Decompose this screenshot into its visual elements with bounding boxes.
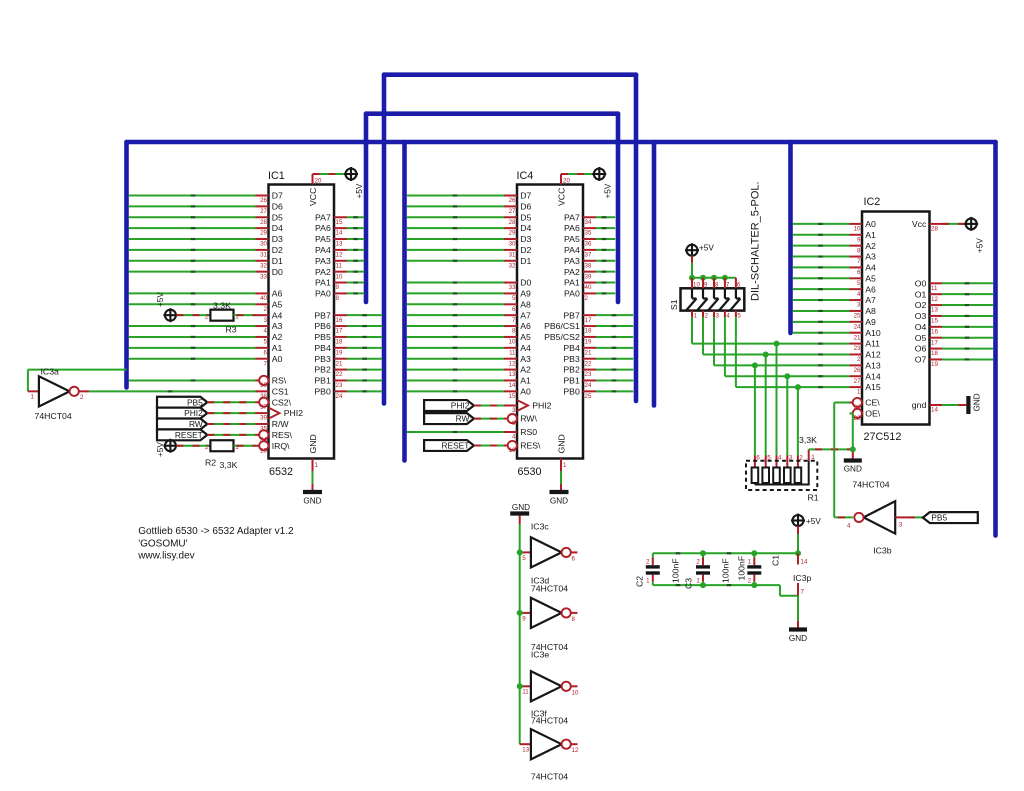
junction	[517, 549, 523, 555]
IC4 pin 39 PA2	[583, 271, 596, 273]
IC2 pin 28 Vcc	[930, 223, 943, 225]
svg-text:R3: R3	[226, 325, 237, 335]
IC4 pin 27 D6	[504, 205, 517, 207]
wire IC4 PB3 to bus	[596, 358, 633, 360]
junction	[700, 582, 706, 588]
svg-text:PB5: PB5	[931, 513, 947, 523]
svg-text:PA4: PA4	[564, 245, 580, 255]
ground below IC4	[550, 490, 569, 494]
svg-text:12: 12	[572, 747, 579, 754]
svg-text:15: 15	[509, 393, 516, 400]
IC2 pin 7 A3	[850, 256, 863, 258]
wire GND down the inverter chain	[519, 516, 521, 525]
wire IC4 PA0 to bus	[596, 292, 615, 294]
svg-text:2: 2	[585, 295, 589, 302]
wire: bus A top horizontal	[384, 72, 636, 77]
svg-text:PB2: PB2	[314, 365, 331, 375]
svg-text:C1: C1	[771, 555, 781, 566]
svg-text:30: 30	[260, 241, 267, 248]
wire bus to IC4 D6	[407, 205, 504, 207]
wire IC1 PA7 to bus	[347, 216, 364, 218]
svg-text:6: 6	[756, 455, 760, 462]
wire +5V to R2	[176, 445, 210, 447]
svg-text:28: 28	[260, 219, 267, 226]
svg-text:A4: A4	[272, 310, 283, 320]
wire bus to IC2 A0	[793, 223, 850, 225]
svg-text:O1: O1	[915, 289, 927, 299]
IC2 pin 22 OE\	[850, 412, 854, 414]
wire bus to IC2 A7	[793, 299, 850, 301]
wire bus to IC2 A9	[793, 321, 850, 323]
wire: bus C vertical at IC1 left	[124, 142, 129, 388]
svg-text:PA5: PA5	[564, 234, 580, 244]
IC4 pin 31 D2	[504, 249, 517, 251]
IC1 pin 12 PA4	[334, 249, 347, 251]
wire bus to IC2 A5	[793, 277, 850, 279]
node PB5 tag at IC1	[157, 397, 207, 408]
wire bus to IC4 A1	[407, 379, 504, 381]
svg-text:+5V: +5V	[355, 183, 364, 198]
svg-text:8: 8	[857, 247, 861, 254]
node PHI2 tag at IC4	[424, 400, 474, 411]
svg-text:7: 7	[264, 360, 268, 367]
svg-text:17: 17	[336, 328, 343, 335]
IC2 pin 3 A7	[850, 299, 863, 301]
IC2 pin 15 O3	[930, 315, 943, 317]
IC1 pin 20 VCC to +5V	[312, 174, 314, 185]
svg-text:PA0: PA0	[315, 289, 331, 299]
wire bus to IC1 A0	[129, 358, 256, 360]
wire IC1 PA6 to bus	[347, 227, 364, 229]
svg-text:+5V: +5V	[806, 517, 821, 526]
IC1 pin 10 PA2	[334, 271, 347, 273]
IC4 pin 33 D0	[504, 282, 517, 284]
svg-text:24: 24	[854, 323, 861, 330]
IC2 pin 9 A1	[850, 234, 863, 236]
wire IC2 O4 to bus	[942, 326, 993, 328]
wire bus to IC2 A2	[793, 245, 850, 247]
svg-text:10: 10	[854, 226, 861, 233]
svg-text:PA1: PA1	[564, 278, 580, 288]
svg-text:26: 26	[260, 197, 267, 204]
wire IC1 PA0 to bus	[347, 292, 364, 294]
IC1 pin 30 D3	[256, 238, 269, 240]
svg-text:29: 29	[509, 230, 516, 237]
wire bus to IC2 A1	[793, 234, 850, 236]
IC2 pin 26 A13	[850, 364, 863, 366]
svg-text:35: 35	[585, 230, 592, 237]
svg-text:D2: D2	[520, 245, 531, 255]
wire bus to IC4 A7	[407, 314, 504, 316]
wire IC1 PB6 to bus	[347, 325, 382, 327]
svg-text:1: 1	[563, 462, 567, 469]
svg-text:8: 8	[572, 616, 576, 623]
resistor R3 3,3K	[210, 310, 233, 321]
svg-text:+5V: +5V	[156, 292, 165, 307]
svg-text:6: 6	[857, 269, 861, 276]
svg-text:25: 25	[585, 393, 592, 400]
IC IC4 6530	[517, 185, 583, 459]
IC1 pin 1 GND	[312, 459, 314, 472]
svg-text:14: 14	[931, 407, 938, 414]
svg-text:A3: A3	[272, 321, 283, 331]
wire bus to IC4 A8	[407, 303, 504, 305]
wire IC1 PA1 to bus	[347, 282, 364, 284]
IC4 pin 5 A9	[504, 292, 517, 294]
svg-text:PHI2: PHI2	[184, 408, 203, 418]
IC4 pin 11 A4	[504, 347, 517, 349]
svg-text:39: 39	[260, 415, 267, 422]
wire IC2 O3 to bus	[942, 315, 993, 317]
svg-text:3: 3	[512, 407, 516, 414]
svg-text:12: 12	[509, 360, 516, 367]
svg-text:O7: O7	[915, 355, 927, 365]
svg-text:13: 13	[336, 241, 343, 248]
junction	[774, 341, 780, 347]
wire bus to IC4 D0	[407, 282, 504, 284]
IC2 pin 1 A15	[850, 386, 863, 388]
node RESET tag at IC4	[424, 440, 474, 451]
IC1 pin 37 CS2\	[256, 401, 269, 403]
svg-text:15: 15	[336, 219, 343, 226]
wire IC2 O2 to bus	[942, 304, 993, 306]
junction	[722, 275, 728, 281]
svg-text:33: 33	[260, 273, 267, 280]
IC1 pin 26 D7	[256, 195, 269, 197]
svg-text:14: 14	[801, 559, 808, 566]
svg-text:PA7: PA7	[315, 212, 331, 222]
S1 pole 4	[724, 278, 726, 289]
IC1 pin 8 PA0	[334, 292, 347, 294]
svg-text:A1: A1	[520, 376, 531, 386]
svg-text:26: 26	[854, 367, 861, 374]
svg-text:D7: D7	[272, 191, 283, 201]
wire IC2 O0 to bus	[942, 282, 993, 284]
wire IC1 PB4 to bus	[347, 347, 382, 349]
svg-text:14: 14	[509, 382, 516, 389]
wire R2 to IC1 IRQ	[234, 445, 256, 447]
svg-text:5: 5	[522, 555, 526, 562]
svg-text:IRQ\: IRQ\	[272, 441, 290, 451]
svg-text:PA1: PA1	[315, 278, 331, 288]
svg-text:+5V: +5V	[699, 243, 714, 252]
svg-text:4: 4	[847, 523, 851, 530]
svg-text:37: 37	[260, 404, 267, 411]
IC1 pin 32 D1	[256, 260, 269, 262]
node RW tag at IC4	[424, 413, 474, 424]
IC1 pin 33 D0	[256, 271, 269, 273]
svg-text:23: 23	[336, 382, 343, 389]
IC2 pin 24 A9	[850, 321, 863, 323]
power +5V at IC3p	[791, 514, 805, 528]
svg-text:D1: D1	[272, 256, 283, 266]
svg-text:3,3K: 3,3K	[799, 435, 817, 445]
svg-text:9: 9	[336, 284, 340, 291]
IC1 pin 17 PB6	[334, 325, 347, 327]
svg-text:3: 3	[857, 302, 861, 309]
svg-text:A4: A4	[865, 263, 876, 273]
IC4 pin 19 PB5/CS2	[583, 336, 596, 338]
svg-text:GND: GND	[308, 434, 318, 453]
svg-text:A5: A5	[865, 273, 876, 283]
svg-text:3: 3	[789, 455, 793, 462]
wire IC4 PB7 to bus	[596, 314, 633, 316]
IC4 pin 15 A0	[504, 390, 517, 392]
wire junction down to R1	[765, 354, 767, 455]
resistor R1 element 5	[765, 483, 767, 485]
svg-text:R/W: R/W	[272, 419, 290, 429]
svg-text:6: 6	[572, 555, 576, 562]
svg-text:A3: A3	[865, 252, 876, 262]
svg-text:32: 32	[509, 262, 516, 269]
svg-text:IC1: IC1	[268, 170, 285, 182]
svg-text:31: 31	[260, 252, 267, 259]
wire bus to IC2 A6	[793, 288, 850, 290]
svg-text:9: 9	[857, 236, 861, 243]
svg-text:IC3e: IC3e	[531, 650, 550, 660]
svg-text:9: 9	[522, 615, 526, 622]
svg-text:OE\: OE\	[865, 409, 881, 419]
IC4 pin 18 PB6/CS1	[583, 325, 596, 327]
IC4 pin 26 D7	[504, 195, 517, 197]
svg-text:R2: R2	[205, 458, 216, 468]
IC4 pin 1 GND	[560, 459, 562, 472]
svg-text:PB3: PB3	[314, 354, 331, 364]
IC4 pin 32 D1	[504, 260, 517, 262]
svg-text:RES\: RES\	[272, 430, 293, 440]
IC1 pin 34 RES\	[256, 434, 269, 436]
wire bus to IC1 D2	[129, 249, 256, 251]
svg-text:5: 5	[857, 280, 861, 287]
svg-text:PB0: PB0	[314, 386, 331, 396]
IC2 pin 8 A2	[850, 245, 863, 247]
svg-text:D1: D1	[520, 256, 531, 266]
svg-text:PHI2: PHI2	[284, 408, 303, 418]
svg-text:A1: A1	[272, 343, 283, 353]
wire bus to IC4 A9	[407, 292, 504, 294]
wire bus to IC4 A0	[407, 390, 504, 392]
svg-text:IC3b: IC3b	[873, 546, 892, 556]
IC1 pin 40 A6	[256, 292, 269, 294]
inverter IC3b 74HCT04	[864, 501, 896, 533]
power +5V at S1	[685, 243, 699, 257]
svg-text:PA3: PA3	[315, 256, 331, 266]
svg-text:10: 10	[336, 273, 343, 280]
wire IC4 PB4 to bus	[596, 347, 633, 349]
IC1 pin 19 PB4	[334, 347, 347, 349]
wire bus to IC1 D7	[129, 195, 256, 197]
wire IC4 PA4 to bus	[596, 249, 615, 251]
capacitor C2 100nF	[652, 553, 654, 557]
svg-text:PA5: PA5	[315, 234, 331, 244]
power +5V at R3	[163, 308, 177, 322]
svg-text:25: 25	[260, 447, 267, 454]
IC1 pin 16 PB7	[334, 314, 347, 316]
svg-text:PB4: PB4	[563, 343, 580, 353]
svg-text:+5V: +5V	[976, 238, 985, 253]
svg-text:IC3c: IC3c	[531, 522, 550, 532]
wire IC4 PA1 to bus	[596, 282, 615, 284]
resistor R1 element 2	[797, 483, 799, 485]
wire S1 to IC2 address row	[724, 317, 726, 376]
svg-text:4: 4	[726, 313, 730, 320]
svg-text:40: 40	[260, 295, 267, 302]
svg-text:19: 19	[336, 349, 343, 356]
IC1 pin 25 IRQ\	[256, 445, 269, 447]
node PHI2 tag at IC1	[157, 408, 207, 419]
svg-text:C2: C2	[635, 576, 645, 587]
wire: bus B right vertical	[616, 114, 621, 302]
svg-text:IC3a: IC3a	[41, 367, 60, 377]
wire +5V to R3	[176, 314, 210, 316]
IC4 pin 36 PA5	[583, 238, 596, 240]
svg-text:7: 7	[726, 282, 730, 289]
svg-text:A4: A4	[520, 343, 531, 353]
svg-text:8: 8	[336, 295, 340, 302]
svg-text:38: 38	[585, 262, 592, 269]
IC IC2 27C512	[862, 212, 930, 425]
svg-text:2: 2	[264, 306, 268, 313]
wire S1 to IC2 address row	[713, 317, 715, 365]
IC2 pin 27 A14	[850, 375, 863, 377]
IC2 pin 18 O6	[930, 348, 943, 350]
svg-text:5: 5	[264, 339, 268, 346]
ground below IC3p	[789, 627, 807, 631]
svg-text:10: 10	[509, 339, 516, 346]
svg-text:74HCT04: 74HCT04	[531, 584, 568, 594]
IC1 pin 4 A3	[256, 325, 269, 327]
svg-text:5: 5	[512, 295, 516, 302]
svg-text:7: 7	[857, 258, 861, 265]
IC4 pin 16 RES\	[504, 445, 517, 447]
svg-text:25: 25	[854, 313, 861, 320]
wire bus to IC1 D5	[129, 216, 256, 218]
IC4 pin 4 RS0	[504, 431, 517, 433]
svg-text:PHI2: PHI2	[451, 401, 470, 411]
IC4 pin 10 A5	[504, 336, 517, 338]
IC4 pin 17 PB7	[583, 314, 596, 316]
wire bus to IC4 D7	[407, 195, 504, 197]
IC1 pin 38 CS1	[256, 390, 269, 392]
switch S1 DIL-SCHALTER 5-pol	[681, 288, 745, 310]
IC1 pin 27 D6	[256, 205, 269, 207]
svg-text:100nF: 100nF	[671, 558, 681, 583]
svg-text:2: 2	[646, 559, 650, 566]
svg-text:6532: 6532	[269, 466, 293, 478]
svg-text:20: 20	[563, 178, 570, 185]
IC2 pin 16 O4	[930, 326, 943, 328]
wire bus to IC2 A4	[793, 266, 850, 268]
wire: bus B top horizontal	[366, 111, 618, 116]
svg-text:D7: D7	[520, 191, 531, 201]
svg-text:D0: D0	[272, 267, 283, 277]
svg-text:PB1: PB1	[563, 376, 580, 386]
svg-text:A2: A2	[272, 332, 283, 342]
svg-text:GND: GND	[789, 634, 807, 643]
IC2 pin 11 O0	[930, 282, 943, 284]
wire bus to IC1 RS\	[129, 379, 256, 381]
wire bus to IC1 A2	[129, 336, 256, 338]
wire PHI2 tag to IC1	[207, 412, 255, 414]
IC2 pin 2 A12	[850, 353, 863, 355]
inverter IC3a 74HCT04	[39, 376, 70, 406]
wire R3 to IC1 A4	[234, 314, 256, 316]
svg-text:31: 31	[509, 252, 516, 259]
svg-text:12: 12	[931, 296, 938, 303]
wire bus to IC2 A3	[793, 256, 850, 258]
resistor R2 3,3K	[210, 440, 233, 451]
junction	[689, 275, 695, 281]
svg-text:IC2: IC2	[864, 196, 881, 208]
IC2 pin 17 O5	[930, 337, 943, 339]
IC1 pin 15 PA7	[334, 216, 347, 218]
junction	[700, 275, 706, 281]
wire bus to IC2 A10	[793, 332, 850, 334]
wire IC4 PB5/CS2 to bus	[596, 336, 633, 338]
R1 common rail	[755, 461, 809, 485]
IC4 pin 28 D5	[504, 216, 517, 218]
wire IC4 PB1 to bus	[596, 379, 633, 381]
ground below IC1	[303, 490, 322, 494]
S1 pole 3	[713, 278, 715, 289]
svg-text:16: 16	[336, 317, 343, 324]
svg-text:13: 13	[509, 371, 516, 378]
wire bus to IC2 A8	[793, 310, 850, 312]
svg-text:21: 21	[854, 334, 861, 341]
svg-text:17: 17	[931, 339, 938, 346]
IC4 pin 7 A7	[504, 314, 517, 316]
svg-text:24: 24	[336, 393, 343, 400]
svg-text:C3: C3	[684, 578, 694, 589]
inverter IC3e 74HCT04	[520, 685, 531, 687]
svg-text:30: 30	[509, 241, 516, 248]
wire bus to IC4 A4	[407, 347, 504, 349]
wire: bus C vertical at IC4 left	[402, 142, 407, 461]
svg-text:D2: D2	[272, 245, 283, 255]
svg-text:1: 1	[31, 394, 35, 401]
IC4 pin 30 D3	[504, 238, 517, 240]
svg-text:17: 17	[585, 317, 592, 324]
svg-text:'GOSOMU': 'GOSOMU'	[138, 538, 187, 549]
IC2 pin 25 A8	[850, 310, 863, 312]
junction	[795, 384, 801, 390]
wire IC4 PA6 to bus	[596, 227, 615, 229]
svg-text:PB1: PB1	[314, 376, 331, 386]
wire IC1 PB2 to bus	[347, 369, 382, 371]
wire: bus C vertical stub right of IC4	[652, 142, 657, 406]
IC2 pin 14 gnd	[930, 404, 943, 406]
IC1 pin 14 PA6	[334, 227, 347, 229]
svg-text:10: 10	[693, 282, 700, 289]
wire capacitor top rail	[653, 552, 798, 554]
svg-text:4: 4	[857, 291, 861, 298]
wire bus to IC1 D3	[129, 238, 256, 240]
svg-text:GND: GND	[303, 497, 321, 506]
wire IC1 PB1 to bus	[347, 379, 382, 381]
svg-text:40: 40	[585, 284, 592, 291]
wire IC4 PB2 to bus	[596, 369, 633, 371]
svg-text:6: 6	[512, 306, 516, 313]
node RESET tag at IC1	[157, 429, 207, 440]
svg-text:PB2: PB2	[563, 365, 580, 375]
node PB5 tag at IC3b	[923, 512, 978, 523]
wire bus to IC1 D6	[129, 205, 256, 207]
svg-text:A8: A8	[865, 306, 876, 316]
wire IC2 CE to IC3b output	[834, 402, 849, 404]
svg-text:9: 9	[704, 282, 708, 289]
wire IC1 PA5 to bus	[347, 238, 364, 240]
svg-text:27C512: 27C512	[864, 431, 902, 443]
